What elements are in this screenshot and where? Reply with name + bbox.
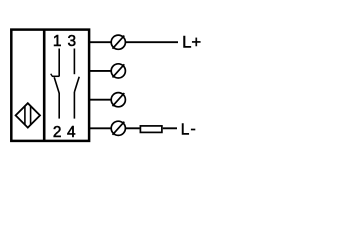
NO contact 3-4 lower terminal bbox=[73, 92, 75, 119]
wire resistor to L- bbox=[163, 127, 177, 129]
terminal circle pin4 bbox=[111, 121, 125, 135]
wire circle4 to resistor bbox=[126, 127, 140, 129]
svg-text:L+: L+ bbox=[182, 32, 201, 51]
NO contact 3-4 blade bbox=[74, 77, 79, 92]
terminal circle pin1 bbox=[111, 35, 125, 49]
wire pin2 stub bbox=[90, 70, 111, 72]
terminal slash pin3 bbox=[113, 93, 125, 106]
NC contact 1-2 blade bbox=[54, 77, 59, 93]
NC contact 1-2 seat bbox=[52, 75, 60, 77]
sensor symbol bar right bbox=[30, 106, 32, 126]
svg-text:2: 2 bbox=[53, 124, 62, 141]
label L- minus stroke bbox=[191, 129, 195, 131]
wire pin3 stub bbox=[90, 99, 111, 101]
terminal slash pin1 bbox=[113, 36, 125, 49]
resistor bbox=[140, 126, 162, 132]
svg-text:L: L bbox=[181, 122, 190, 139]
NC contact 1-2 fixed terminal bbox=[58, 49, 60, 77]
wire pin4 stub bbox=[90, 127, 111, 129]
inductive sensor symbol (diamond) bbox=[16, 103, 40, 127]
svg-text:4: 4 bbox=[67, 124, 76, 141]
terminal slash pin4 bbox=[113, 122, 125, 135]
svg-text:1: 1 bbox=[53, 33, 62, 50]
wire L+ bbox=[126, 41, 178, 43]
divider between sensor and switch block bbox=[43, 30, 46, 141]
sensor body box bbox=[11, 30, 89, 141]
terminal circle pin2 bbox=[111, 64, 125, 78]
sensor symbol bar left bbox=[24, 106, 26, 126]
terminal slash pin2 bbox=[113, 64, 125, 77]
svg-text:3: 3 bbox=[68, 33, 77, 50]
NC contact 1-2 seat barb bbox=[51, 74, 53, 77]
wire pin1 stub bbox=[90, 41, 111, 43]
NO contact 3-4 fixed terminal bbox=[73, 49, 75, 75]
NC contact 1-2 lower terminal bbox=[58, 93, 60, 119]
terminal circle pin3 bbox=[111, 93, 125, 107]
